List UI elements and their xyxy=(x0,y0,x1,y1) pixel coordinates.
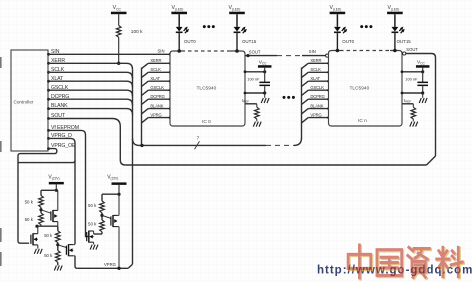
svg-text:OUT0: OUT0 xyxy=(184,39,196,44)
resistor R-pullup 100 k xyxy=(116,26,121,38)
node bus junction xyxy=(140,144,143,147)
transistor Q4 PMOS xyxy=(102,215,111,218)
wire divider B from node xyxy=(57,226,59,231)
svg-text:VCC: VCC xyxy=(417,60,426,66)
svg-text:SIN: SIN xyxy=(158,49,165,54)
node IC0 SOUT pin xyxy=(246,54,249,57)
op IC U2 TLC5940 IC n box xyxy=(329,51,403,127)
svg-text:SCLK: SCLK xyxy=(150,67,161,72)
svg-text:V(22V): V(22V) xyxy=(107,175,118,181)
node ICn pin DCPRG xyxy=(327,98,330,101)
svg-text:OUT15: OUT15 xyxy=(397,39,412,44)
svg-text:BLANK: BLANK xyxy=(51,103,68,109)
svg-text:OUT0: OUT0 xyxy=(342,39,354,44)
svg-text:SOUT: SOUT xyxy=(406,47,418,52)
svg-text:XLAT: XLAT xyxy=(150,76,160,81)
watermark red characters (drawn) xyxy=(348,245,464,279)
node IC0 pin DCPRG xyxy=(169,98,172,101)
wire IC0 pin BLANK bus entry xyxy=(142,109,149,114)
node ICn pin VPRG xyxy=(327,116,330,119)
svg-text:V(LED): V(LED) xyxy=(229,5,241,11)
svg-text:BLANK: BLANK xyxy=(150,103,163,108)
svg-text:IC 0: IC 0 xyxy=(202,119,211,125)
node IC0 pin XLAT xyxy=(169,80,172,83)
controller pin SCLK xyxy=(47,71,50,74)
wire ICn pin XLAT bus entry xyxy=(302,81,309,86)
svg-text:IREF: IREF xyxy=(242,98,249,104)
wire SOUT return bottom xyxy=(125,164,426,166)
svg-text:VPRG_OE: VPRG_OE xyxy=(51,143,76,149)
transistor Q3 NMOS xyxy=(58,245,67,248)
wire VPRG_D vertical xyxy=(49,138,76,244)
wire to divider C xyxy=(102,193,119,195)
controller pin VPRG_OE xyxy=(47,147,50,150)
node IC0 pin XERR xyxy=(169,62,172,65)
svg-text:100 k: 100 k xyxy=(131,29,143,35)
svg-text:http://www.go-gddq.com: http://www.go-gddq.com xyxy=(317,265,472,277)
transistor Q2 NMOS xyxy=(32,233,34,245)
controller pin SOUT xyxy=(47,117,50,120)
wire SOUT return chamfer xyxy=(427,156,436,165)
node circuit1 xyxy=(35,225,38,228)
svg-text:V(LED): V(LED) xyxy=(388,5,400,11)
node IC0 pin SCLK xyxy=(169,71,172,74)
wire SOUT return to controller xyxy=(49,119,126,166)
wire IC0 GND pin xyxy=(245,92,265,94)
wire ICn fanout vertical xyxy=(301,68,303,139)
svg-text:VPRG: VPRG xyxy=(310,112,321,117)
svg-text:SIN: SIN xyxy=(51,49,60,55)
controller pin DCPRG xyxy=(47,98,50,101)
wire XERR controller to bus xyxy=(49,63,133,69)
controller pin GSCLK xyxy=(47,89,50,92)
transistor Q1 PMOS xyxy=(41,210,51,213)
svg-text:Controller: Controller xyxy=(14,100,34,105)
wire divider C bottom to Q5 drain xyxy=(94,233,102,235)
resistor R1 50 k xyxy=(39,196,44,208)
wire IC0 pin DCPRG bus entry xyxy=(142,99,149,104)
node ICn pin GSCLK xyxy=(327,89,330,92)
ground under R4 xyxy=(54,266,56,271)
svg-text:XLAT: XLAT xyxy=(51,76,64,82)
resistor R2 50 k xyxy=(39,213,44,225)
wire SCLK controller to bus xyxy=(49,72,133,78)
ground under Q5 xyxy=(90,245,92,250)
svg-text:SCLK: SCLK xyxy=(310,67,321,72)
svg-text:DCPRG: DCPRG xyxy=(51,94,69,100)
wire GSCLK controller to bus xyxy=(49,90,133,96)
op IC U1 TLC5940 IC 0 box xyxy=(170,51,245,126)
node ICn pin BLANK xyxy=(327,107,330,110)
svg-text:50 k: 50 k xyxy=(44,253,53,258)
svg-text:V(LED): V(LED) xyxy=(330,5,342,11)
controller U-CTRL box xyxy=(11,50,48,151)
svg-text:XERR: XERR xyxy=(310,58,321,63)
wire Q4 drain to VPRG node xyxy=(118,227,120,269)
svg-text:GSCLK: GSCLK xyxy=(150,85,164,90)
wire IC0 pin XERR bus entry xyxy=(142,63,149,68)
wire XLAT controller to bus xyxy=(49,81,133,87)
node 22V-2 junction xyxy=(117,193,120,196)
wire DCPRG controller to bus xyxy=(49,99,133,105)
svg-text:VPRG: VPRG xyxy=(150,112,161,117)
controller pin XERR xyxy=(47,62,50,65)
decorative left-edge marks xyxy=(0,57,2,68)
transistor Q5 NMOS xyxy=(88,231,90,243)
svg-text:50 k: 50 k xyxy=(25,200,34,205)
wire IC0 VCC pin xyxy=(245,71,265,73)
svg-text:VPRG: VPRG xyxy=(104,262,116,267)
wire VPRG chamfer to riser xyxy=(128,264,132,268)
wire IC0 pin SCLK bus entry xyxy=(142,72,149,77)
wire ICn GND pin xyxy=(402,92,423,94)
svg-text:XERR: XERR xyxy=(51,58,65,64)
node ICn pin XERR xyxy=(327,62,330,65)
wire ICn pin SCLK bus entry xyxy=(302,72,309,77)
svg-text:SCLK: SCLK xyxy=(51,67,65,73)
wire ICn pin XERR bus entry xyxy=(302,63,309,68)
ground under R-IREF ICn xyxy=(410,122,412,127)
wire bus merge vertical / VPRG riser xyxy=(132,69,134,264)
svg-text:SOUT: SOUT xyxy=(249,49,261,54)
wire BLANK controller to bus xyxy=(49,109,133,115)
wire VPRG_D left branch xyxy=(18,160,75,162)
bus width marker 7 xyxy=(195,141,200,149)
node 22V-1 junction xyxy=(55,189,58,192)
svg-text:V(LED): V(LED) xyxy=(172,5,184,11)
svg-text:XLAT: XLAT xyxy=(310,76,320,81)
node ICn pin XLAT xyxy=(327,80,330,83)
node IC0 pin VPRG xyxy=(169,116,172,119)
wire bus corner into horizontal bus xyxy=(133,139,143,146)
wire IC0 fanout vertical xyxy=(141,68,143,146)
resistor R5 50 k xyxy=(100,201,105,213)
svg-text:OUT15: OUT15 xyxy=(242,39,257,44)
wire to divider A xyxy=(41,189,56,191)
svg-text:SIN: SIN xyxy=(309,49,316,54)
pin ICn SIN circle xyxy=(326,54,329,57)
wire ICn VCC pin xyxy=(402,71,423,73)
controller pin VPRG_D xyxy=(47,137,50,140)
svg-text:50 k: 50 k xyxy=(88,222,97,227)
ellipsis between IC0 LEDs xyxy=(203,25,206,28)
svg-text:50 k: 50 k xyxy=(44,233,53,238)
svg-text:100 nF: 100 nF xyxy=(405,76,418,81)
node IC0 pin SIN xyxy=(169,53,172,56)
svg-text:SOUT: SOUT xyxy=(51,113,66,119)
wire ICn pin BLANK bus entry xyxy=(302,109,309,114)
wire Vf EEPROM to NMOS Q5 gate xyxy=(49,130,89,236)
wire 7-signal bus horizontal xyxy=(142,144,266,146)
svg-text:100 nF: 100 nF xyxy=(247,76,260,81)
node IC0 pin GSCLK xyxy=(169,89,172,92)
svg-text:V(22V): V(22V) xyxy=(48,175,59,181)
ground under C1 xyxy=(264,93,266,98)
ellipsis between ICn LEDs xyxy=(360,25,363,28)
wire ICn omitted OUT pins (dashed) xyxy=(340,50,390,52)
svg-text:DCPRG: DCPRG xyxy=(310,94,324,99)
ground under C2 xyxy=(422,93,424,98)
node ICn pin SCLK xyxy=(327,71,330,74)
wire VPRG_OE loop xyxy=(18,149,57,244)
svg-text:GSCLK: GSCLK xyxy=(51,85,69,91)
ground under Q2 xyxy=(34,249,36,254)
wire IC0 omitted OUT pins (dashed) xyxy=(182,50,228,52)
svg-text:XERR: XERR xyxy=(150,58,161,63)
ellipsis between IC0 and ICn xyxy=(283,96,286,99)
svg-text:Vf EEPROM: Vf EEPROM xyxy=(51,125,79,131)
ground under R-IREF IC0 xyxy=(253,122,255,127)
resistor R4 50 k xyxy=(56,251,61,263)
controller pin XLAT xyxy=(47,80,50,83)
controller pin Vf EEPROM xyxy=(47,129,50,132)
svg-text:VCC: VCC xyxy=(259,60,268,66)
svg-text:IC n: IC n xyxy=(358,118,367,124)
node XERR/pullup junction xyxy=(117,62,120,65)
wire IC0 pin VPRG bus entry xyxy=(142,118,149,123)
wire node line circuit 1 xyxy=(37,225,58,227)
svg-text:TLC5940: TLC5940 xyxy=(350,86,370,92)
resistor R3 50 k xyxy=(56,231,61,243)
svg-text:7: 7 xyxy=(197,136,200,141)
controller pin SIN xyxy=(47,53,50,56)
svg-text:VCC: VCC xyxy=(113,5,122,11)
wire SIN controller to IC0 xyxy=(49,53,171,55)
wire IC0 pin GSCLK bus entry xyxy=(142,90,149,95)
svg-text:GSCLK: GSCLK xyxy=(310,85,324,90)
svg-text:50 k: 50 k xyxy=(25,217,34,222)
controller pin BLANK xyxy=(47,107,50,110)
svg-text:DCPRG: DCPRG xyxy=(150,94,164,99)
svg-text:VPRG_D: VPRG_D xyxy=(51,133,72,139)
svg-text:BLANK: BLANK xyxy=(310,103,323,108)
wire ICn pin VPRG bus entry xyxy=(302,118,309,123)
svg-text:TLC5940: TLC5940 xyxy=(197,86,217,92)
svg-text:IREF: IREF xyxy=(404,98,411,104)
node divider C tap xyxy=(101,213,103,220)
wire ICn pin GSCLK bus entry xyxy=(302,90,309,95)
resistor R-IREF ICn xyxy=(411,107,416,119)
wire IC0 pin XLAT bus entry xyxy=(142,81,149,86)
node VPRG junction xyxy=(117,267,120,270)
svg-text:50 k: 50 k xyxy=(88,203,97,208)
wire Q3 to VPRG line xyxy=(75,256,77,268)
node IC0 pin BLANK xyxy=(169,107,172,110)
resistor R-IREF IC0 xyxy=(255,107,260,119)
resistor R6 50 k xyxy=(100,220,105,232)
node divider B tap xyxy=(57,243,59,251)
node divider A tap xyxy=(40,207,42,213)
wire ICn pin DCPRG bus entry xyxy=(302,99,309,104)
wire pullup to XERR xyxy=(118,37,120,63)
